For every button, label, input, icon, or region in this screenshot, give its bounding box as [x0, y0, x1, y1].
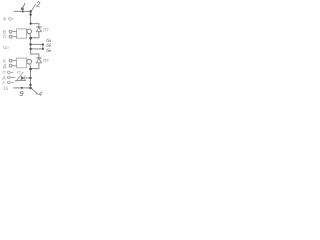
svg-text:Uо: Uо: [3, 45, 9, 50]
svg-text:К: К: [3, 59, 6, 65]
svg-text:П: П: [3, 35, 7, 41]
svg-text:бв: бв: [46, 48, 51, 53]
svg-text:В: В: [3, 30, 6, 36]
svg-text:1б: 1б: [3, 86, 8, 91]
svg-text:П7: П7: [43, 58, 49, 63]
svg-text:А: А: [2, 80, 5, 85]
svg-text:П7: П7: [43, 27, 49, 32]
svg-text:2: 2: [35, 0, 40, 8]
svg-text:4: 4: [39, 91, 43, 98]
